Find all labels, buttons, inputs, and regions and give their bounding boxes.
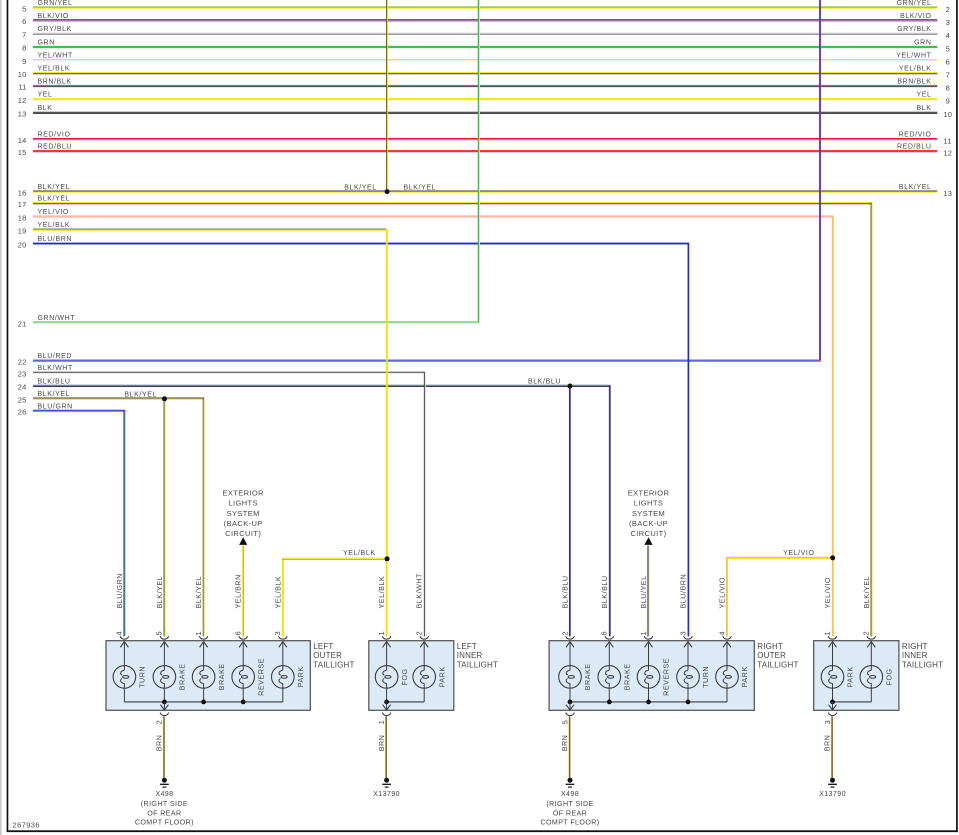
svg-text:BLU/YEL: BLU/YEL — [639, 575, 648, 608]
ground pin 2 arrow of left outer taillight — [160, 702, 168, 710]
svg-text:TURN: TURN — [138, 666, 147, 688]
pin 1 connector of right outer taillight — [639, 631, 653, 639]
svg-text:YEL/BLK: YEL/BLK — [273, 576, 282, 609]
bulb BRAKE in right outer taillight — [559, 663, 593, 701]
bulb PARK in right outer taillight — [716, 666, 750, 702]
label left of left inner taillight title — [457, 642, 477, 651]
label outer of right outer taillight title — [757, 651, 786, 660]
wire BLK/YEL vertical row25 to pin 1 left outer — [203, 398, 204, 636]
pin 2 arrow inside right inner taillight — [867, 641, 875, 666]
svg-text:BLK/WHT: BLK/WHT — [415, 573, 424, 609]
svg-text:20: 20 — [18, 240, 27, 249]
bulb TURN in left outer taillight — [113, 666, 147, 702]
svg-text:BRN: BRN — [155, 735, 164, 752]
border frame right edge — [956, 0, 958, 832]
wire row 18 YEL/VIO — [18, 209, 834, 222]
svg-text:BLK/BLU: BLK/BLU — [528, 379, 561, 386]
svg-text:PARK: PARK — [740, 666, 749, 687]
pin 2 connector of right outer taillight — [560, 631, 574, 639]
svg-text:EXTERIOR: EXTERIOR — [628, 489, 670, 498]
wire BLK/YEL vertical from top to node at row 16 — [387, 0, 388, 191]
svg-text:1: 1 — [377, 720, 386, 724]
svg-text:TAILLIGHT: TAILLIGHT — [313, 660, 354, 669]
svg-text:YEL/WHT: YEL/WHT — [38, 53, 73, 60]
svg-text:(RIGHT SIDE: (RIGHT SIDE — [141, 800, 188, 808]
svg-text:FOG: FOG — [400, 668, 409, 685]
wire BLK/BLU vertical node to pin 2 right outer — [570, 386, 571, 636]
label BLK/WHT on pin 2 wire — [415, 573, 424, 609]
svg-text:1: 1 — [639, 631, 648, 635]
svg-text:19: 19 — [18, 226, 27, 235]
label BLU/GRN on pin 4 wire — [115, 573, 124, 608]
label YEL/VIO on pin 4 wire — [718, 577, 727, 608]
pin 2 arrow inside left inner taillight — [420, 641, 428, 666]
diagram number 267936 — [13, 821, 40, 830]
label BLK/YEL left of node row 25 — [124, 391, 157, 398]
svg-text:YEL/VIO: YEL/VIO — [38, 209, 69, 216]
svg-text:OUTER: OUTER — [757, 651, 786, 660]
wire row 12 YEL — [18, 92, 950, 106]
svg-text:LIGHTS: LIGHTS — [634, 499, 664, 508]
ground symbol X13790 of left inner taillight — [382, 778, 391, 787]
svg-text:YEL/BLK: YEL/BLK — [38, 66, 71, 73]
label taillight of left inner taillight title — [457, 660, 498, 669]
svg-text:BLU/RED: BLU/RED — [38, 353, 73, 360]
svg-text:REVERSE: REVERSE — [256, 658, 265, 696]
svg-text:267936: 267936 — [13, 821, 40, 830]
bulb BRAKE in right outer taillight — [598, 663, 632, 701]
wire YEL/BRN vertical from exterior-lights arrow to pin 6 left outer — [243, 546, 244, 637]
pin 1 connector of right inner taillight — [823, 631, 837, 639]
svg-text:5: 5 — [946, 44, 950, 53]
pin 5 arrow inside left outer taillight — [160, 641, 168, 666]
ground symbol X498 of right outer taillight — [566, 778, 575, 787]
wire row 16 BLK/YEL — [18, 184, 952, 198]
svg-text:BLK/BLU: BLK/BLU — [600, 575, 609, 608]
label YEL/VIO on pin 1 wire — [823, 577, 832, 608]
svg-text:13: 13 — [943, 189, 952, 198]
wire YEL/BLK vertical row19 to node — [386, 229, 388, 558]
svg-text:8: 8 — [946, 83, 950, 92]
pin 6 arrow inside right outer taillight — [605, 641, 613, 666]
svg-text:EXTERIOR: EXTERIOR — [222, 489, 264, 498]
wire YEL/VIO horizontal branch — [726, 557, 833, 558]
svg-text:BLK: BLK — [38, 105, 53, 112]
wire BRN ground lead of left inner taillight — [377, 716, 386, 777]
svg-text:BRN: BRN — [823, 735, 832, 752]
svg-text:GRY/BLK: GRY/BLK — [897, 26, 931, 33]
svg-text:OF REAR: OF REAR — [147, 809, 181, 817]
svg-text:2: 2 — [155, 720, 164, 724]
wire BLU/YEL vertical from exterior-lights arrow to pin 1 right outer — [648, 546, 649, 637]
svg-text:24: 24 — [18, 383, 27, 392]
svg-text:INNER: INNER — [457, 651, 483, 660]
svg-text:PARK: PARK — [846, 666, 855, 687]
wire row 13 BLK — [18, 105, 952, 119]
svg-text:RED/VIO: RED/VIO — [899, 132, 932, 139]
wire YEL/VIO vertical branch to pin 4 right outer — [727, 557, 728, 636]
ground pin 3 connector of right inner taillight — [823, 713, 837, 725]
svg-text:PARK: PARK — [437, 666, 446, 687]
svg-text:17: 17 — [18, 200, 27, 209]
node BLK/BLU junction row 24 — [568, 384, 573, 389]
svg-text:BLK/YEL: BLK/YEL — [38, 184, 71, 191]
svg-text:4: 4 — [115, 631, 124, 635]
svg-text:YEL/WHT: YEL/WHT — [896, 53, 931, 60]
wire row 7 GRY/BLK — [22, 26, 950, 40]
svg-text:YEL/VIO: YEL/VIO — [823, 577, 832, 608]
wire BRN ground lead of right inner taillight — [823, 716, 832, 777]
label YEL/BLK on pin 3 wire — [273, 576, 282, 609]
svg-text:BLU/GRN: BLU/GRN — [38, 403, 73, 410]
node YEL/VIO junction — [830, 555, 835, 560]
label YEL/VIO above branch — [783, 550, 814, 557]
bus junction in right inner taillight — [830, 700, 835, 705]
svg-text:11: 11 — [943, 137, 951, 146]
svg-text:BRN/BLK: BRN/BLK — [38, 78, 72, 85]
pin 3 connector of right outer taillight — [678, 631, 692, 639]
node BLK/YEL junction row 16 — [385, 189, 390, 194]
wire row 8 GRN — [22, 39, 950, 53]
wire row 23 BLK/WHT — [18, 365, 425, 378]
bulb PARK in left outer taillight — [272, 666, 306, 702]
svg-text:BRN: BRN — [377, 735, 386, 752]
pin 1 connector of left outer taillight — [194, 631, 208, 639]
svg-text:BLK/YEL: BLK/YEL — [899, 184, 932, 191]
svg-text:BLK: BLK — [916, 105, 931, 112]
border frame bottom edge — [7, 830, 958, 832]
label X13790 ground designation — [819, 790, 846, 798]
svg-text:9: 9 — [946, 97, 950, 106]
wire row 24 BLK/BLU — [18, 378, 610, 391]
svg-text:25: 25 — [18, 395, 27, 404]
svg-text:YEL/BRN: YEL/BRN — [234, 574, 243, 608]
bus junction in left outer taillight — [241, 700, 246, 705]
svg-text:14: 14 — [18, 136, 27, 145]
svg-text:RED/BLU: RED/BLU — [38, 144, 73, 151]
svg-text:BLK/YEL: BLK/YEL — [344, 184, 377, 191]
svg-text:5: 5 — [155, 631, 164, 635]
ground pin 5 arrow of right outer taillight — [566, 702, 574, 710]
label BLK/YEL on pin 1 wire — [194, 576, 203, 609]
svg-text:COMPT FLOOR): COMPT FLOOR) — [540, 819, 599, 827]
wire BLK/WHT vertical to pin 2 left inner — [424, 372, 425, 636]
svg-text:GRN: GRN — [38, 39, 55, 46]
svg-text:YEL/VIO: YEL/VIO — [718, 577, 727, 608]
svg-text:23: 23 — [18, 370, 27, 379]
svg-text:18: 18 — [18, 213, 27, 222]
wire BRN ground lead of left outer taillight — [155, 716, 164, 777]
left inner taillight box — [369, 641, 454, 711]
svg-text:BLK/YEL: BLK/YEL — [862, 576, 871, 609]
svg-text:2: 2 — [946, 5, 950, 14]
svg-text:(BACK-UP: (BACK-UP — [224, 519, 263, 528]
svg-text:OF REAR: OF REAR — [553, 809, 587, 817]
pin 4 arrow inside right outer taillight — [723, 641, 731, 666]
node BLK/YEL junction row 25 — [162, 396, 167, 401]
ground pin 3 arrow of right inner taillight — [829, 702, 837, 710]
label taillight of left outer taillight title — [313, 660, 354, 669]
svg-text:SYSTEM: SYSTEM — [227, 509, 260, 518]
svg-text:CIRCUIT): CIRCUIT) — [225, 529, 261, 538]
svg-text:BLK/VIO: BLK/VIO — [900, 13, 931, 20]
pin 1 arrow inside left inner taillight — [383, 641, 391, 666]
bus junction in right outer taillight — [646, 700, 651, 705]
bus junction in left outer taillight — [201, 700, 206, 705]
svg-text:CIRCUIT): CIRCUIT) — [630, 529, 666, 538]
ground bus wire in left inner taillight — [387, 701, 425, 703]
pin 4 connector of left outer taillight — [115, 631, 129, 639]
left outer taillight box — [106, 641, 310, 711]
pin 6 connector of right outer taillight — [600, 631, 614, 639]
pin 3 connector of left outer taillight — [273, 631, 287, 639]
label BLK/BLU on pin 2 wire — [561, 575, 570, 608]
wire row 6 BLK/VIO — [22, 13, 950, 27]
svg-text:BLK/YEL: BLK/YEL — [194, 576, 203, 609]
svg-text:BLK/WHT: BLK/WHT — [38, 365, 73, 372]
svg-text:BRAKE: BRAKE — [178, 663, 187, 690]
wire row 21 GRN/WHT — [18, 315, 480, 328]
wire row 10 YEL/BLK — [18, 66, 950, 80]
svg-text:26: 26 — [18, 408, 27, 417]
svg-text:(BACK-UP: (BACK-UP — [629, 519, 668, 528]
svg-text:BLK/YEL: BLK/YEL — [38, 196, 71, 203]
label YEL/BRN on pin 6 wire — [234, 574, 243, 608]
label BLK/YEL on pin 2 wire — [862, 576, 871, 609]
pin 2 connector of right inner taillight — [862, 631, 876, 639]
label BLK/BLU left of node — [528, 379, 561, 386]
window edge strip — [0, 0, 2, 835]
svg-text:FOG: FOG — [885, 668, 894, 685]
bulb FOG in right inner taillight — [860, 666, 894, 702]
svg-text:7: 7 — [946, 71, 950, 80]
bulb BRAKE in left outer taillight — [192, 663, 226, 701]
svg-text:2: 2 — [415, 631, 424, 635]
svg-text:16: 16 — [18, 188, 27, 197]
wire YEL/VIO vertical row18 to node — [832, 216, 833, 557]
svg-text:10: 10 — [943, 110, 952, 119]
svg-text:RED/VIO: RED/VIO — [38, 132, 71, 139]
svg-text:BLK/YEL: BLK/YEL — [404, 184, 437, 191]
label outer of left outer taillight title — [313, 651, 342, 660]
svg-text:9: 9 — [22, 57, 26, 66]
label BLU/YEL on pin 1 wire — [639, 575, 648, 608]
svg-text:22: 22 — [18, 358, 27, 367]
wire BLK/YEL vertical row17 to pin 2 right inner — [871, 203, 872, 637]
svg-text:RIGHT: RIGHT — [757, 642, 783, 651]
right outer taillight box — [549, 641, 754, 711]
svg-text:(RIGHT SIDE: (RIGHT SIDE — [546, 800, 593, 808]
svg-text:LEFT: LEFT — [457, 642, 477, 651]
wire YEL/VIO vertical node to pin 1 right inner — [832, 559, 833, 637]
bus junction in right outer taillight — [568, 700, 573, 705]
right inner taillight box — [814, 641, 899, 711]
svg-text:BRAKE: BRAKE — [623, 663, 632, 690]
svg-text:YEL: YEL — [38, 92, 53, 99]
label right of right outer taillight title — [757, 642, 783, 651]
svg-text:TAILLIGHT: TAILLIGHT — [902, 660, 943, 669]
label X498 ground designation — [135, 790, 194, 826]
exterior lights system callout right with arrow — [628, 489, 670, 545]
ground symbol X13790 of right inner taillight — [828, 778, 837, 787]
svg-text:6: 6 — [600, 631, 609, 635]
svg-text:SYSTEM: SYSTEM — [632, 509, 665, 518]
svg-text:BRN: BRN — [560, 735, 569, 752]
svg-text:YEL/BLK: YEL/BLK — [38, 222, 71, 229]
bus junction in right outer taillight — [607, 700, 612, 705]
wire YEL/BLK vertical branch to pin 3 left outer — [282, 558, 284, 636]
bulb REVERSE in right outer taillight — [637, 658, 671, 702]
svg-text:6: 6 — [234, 631, 243, 635]
svg-text:YEL/BLK: YEL/BLK — [899, 66, 932, 73]
pin 1 arrow inside right outer taillight — [645, 641, 653, 666]
svg-text:YEL/BLK: YEL/BLK — [377, 576, 386, 609]
wire row 17 BLK/YEL — [18, 196, 873, 209]
wire GRN/WHT vertical from top to row 21 — [479, 0, 480, 322]
label BLK/YEL on pin 5 wire — [155, 576, 164, 609]
svg-text:1: 1 — [823, 631, 832, 635]
wire BLK/BLU vertical row24 to pin 6 right outer — [609, 385, 610, 636]
ground pin 1 arrow of left inner taillight — [383, 702, 391, 710]
wire row 20 BLU/BRN — [18, 236, 689, 249]
pin 4 connector of right outer taillight — [717, 631, 731, 639]
wire row 26 BLU/GRN — [18, 403, 125, 416]
svg-text:7: 7 — [22, 31, 26, 40]
svg-text:3: 3 — [273, 631, 282, 635]
bus junction in left inner taillight — [384, 700, 389, 705]
svg-text:BLU/BRN: BLU/BRN — [679, 574, 688, 609]
label BLK/YEL left of node — [344, 184, 377, 191]
svg-text:BRAKE: BRAKE — [217, 663, 226, 690]
wire BLU/GRN vertical row26 to pin 4 left outer — [124, 410, 125, 636]
pin 2 arrow inside right outer taillight — [566, 641, 574, 666]
svg-text:10: 10 — [18, 70, 27, 79]
label BLK/YEL right of node — [404, 184, 437, 191]
svg-text:YEL/BLK: YEL/BLK — [343, 550, 376, 557]
svg-text:BRAKE: BRAKE — [583, 663, 592, 690]
bulb FOG in left inner taillight — [375, 666, 408, 702]
pin 1 connector of left inner taillight — [377, 631, 391, 639]
wire row 25 BLK/YEL — [18, 391, 204, 404]
bulb REVERSE in left outer taillight — [232, 658, 266, 702]
label X13790 ground designation — [373, 790, 400, 798]
pin 6 connector of left outer taillight — [234, 631, 248, 639]
svg-text:1: 1 — [377, 631, 386, 635]
label BLK/BLU on pin 6 wire — [600, 575, 609, 608]
svg-text:3: 3 — [678, 631, 687, 635]
svg-text:BLU/GRN: BLU/GRN — [115, 573, 124, 608]
svg-text:2: 2 — [862, 631, 871, 635]
exterior lights system callout left with arrow — [222, 489, 264, 545]
wire row 14 RED/VIO — [18, 132, 952, 146]
wire YEL/BLK vertical node to pin 1 left inner — [386, 559, 388, 636]
svg-text:6: 6 — [22, 17, 26, 26]
bulb BRAKE in left outer taillight — [153, 663, 187, 701]
label YEL/BLK above branch — [343, 550, 376, 557]
label inner of right inner taillight title — [902, 651, 928, 660]
svg-text:GRY/BLK: GRY/BLK — [38, 26, 72, 33]
svg-text:13: 13 — [18, 110, 27, 119]
bus junction in left outer taillight — [162, 700, 167, 705]
ground bus wire in right inner taillight — [833, 701, 872, 703]
svg-text:12: 12 — [943, 149, 952, 158]
bulb PARK in left inner taillight — [413, 666, 446, 702]
svg-text:PARK: PARK — [296, 666, 305, 687]
svg-text:TAILLIGHT: TAILLIGHT — [757, 660, 798, 669]
label left of left outer taillight title — [313, 642, 333, 651]
svg-text:INNER: INNER — [902, 651, 928, 660]
svg-text:BLK/YEL: BLK/YEL — [38, 391, 71, 398]
svg-text:LEFT: LEFT — [313, 642, 333, 651]
svg-text:GRN/WHT: GRN/WHT — [38, 315, 76, 322]
svg-text:RIGHT: RIGHT — [902, 642, 928, 651]
svg-text:5: 5 — [560, 720, 569, 724]
wire YEL/BLK horizontal branch — [282, 558, 387, 559]
svg-text:6: 6 — [946, 58, 950, 67]
svg-text:BLK/VIO: BLK/VIO — [38, 13, 69, 20]
svg-text:21: 21 — [18, 319, 27, 328]
svg-text:RED/BLU: RED/BLU — [897, 144, 932, 151]
label inner of left inner taillight title — [457, 651, 483, 660]
bulb PARK in right inner taillight — [821, 666, 855, 702]
label right of right inner taillight title — [902, 642, 928, 651]
svg-text:TAILLIGHT: TAILLIGHT — [457, 660, 498, 669]
svg-text:15: 15 — [18, 148, 27, 157]
wire BLU/RED vertical from top to row 22 — [820, 0, 821, 360]
svg-text:12: 12 — [18, 96, 27, 105]
svg-text:1: 1 — [194, 631, 203, 635]
svg-text:BLK/YEL: BLK/YEL — [124, 391, 157, 398]
node YEL/BLK junction — [385, 556, 390, 561]
label taillight of right inner taillight title — [902, 660, 943, 669]
svg-text:REVERSE: REVERSE — [662, 658, 671, 696]
svg-text:2: 2 — [560, 631, 569, 635]
svg-text:X498: X498 — [155, 790, 173, 798]
svg-text:5: 5 — [22, 4, 26, 13]
ground symbol X498 of left outer taillight — [160, 778, 169, 787]
svg-text:3: 3 — [946, 18, 950, 27]
svg-text:3: 3 — [823, 720, 832, 724]
pin 6 arrow inside left outer taillight — [239, 641, 247, 666]
wire row 9 YEL/WHT — [22, 53, 950, 67]
pin 3 arrow inside left outer taillight — [279, 641, 287, 666]
svg-text:YEL/VIO: YEL/VIO — [783, 550, 814, 557]
wire row 19 YEL/BLK — [18, 222, 388, 235]
svg-text:TURN: TURN — [701, 666, 710, 688]
svg-text:LIGHTS: LIGHTS — [228, 499, 258, 508]
svg-text:11: 11 — [18, 83, 26, 92]
wire BRN ground lead of right outer taillight — [560, 716, 569, 777]
pin 5 connector of left outer taillight — [155, 631, 169, 639]
wire row 11 BRN/BLK — [18, 78, 950, 92]
svg-text:GRN: GRN — [914, 39, 931, 46]
svg-text:BLU/BRN: BLU/BRN — [38, 236, 73, 243]
svg-text:BRN/BLK: BRN/BLK — [897, 78, 931, 85]
ground pin 5 connector of right outer taillight — [560, 713, 574, 725]
svg-text:4: 4 — [717, 631, 726, 635]
wire BLU/BRN vertical row20 to pin 3 right outer — [687, 243, 689, 636]
pin 1 arrow inside right inner taillight — [829, 641, 837, 666]
ground bus wire in left outer taillight — [124, 701, 282, 703]
svg-text:BLK/BLU: BLK/BLU — [561, 575, 570, 608]
border frame left edge — [7, 0, 9, 832]
wire row 22 BLU/RED — [18, 353, 821, 366]
label X498 ground designation — [540, 790, 599, 826]
bus junction in right outer taillight — [686, 700, 691, 705]
svg-text:4: 4 — [946, 31, 950, 40]
pin 2 connector of left inner taillight — [415, 631, 429, 639]
label BLU/BRN on pin 3 wire — [679, 574, 688, 609]
